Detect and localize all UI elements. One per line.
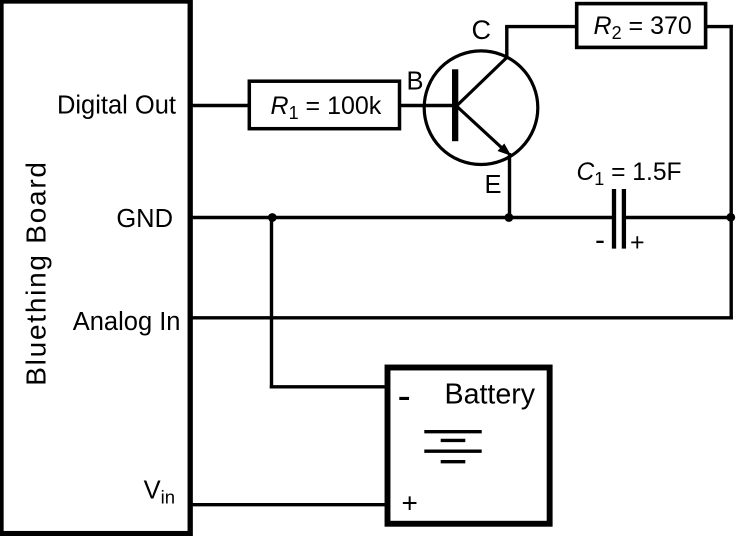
- junction dot GND-battery: [268, 213, 277, 222]
- wire Analog In: [188, 316, 733, 319]
- svg-text:+: +: [402, 488, 418, 519]
- wire battery minus horizontal: [270, 385, 388, 388]
- wire R2 to right rail: [706, 25, 733, 28]
- wire emitter vertical: [508, 153, 511, 218]
- resistor R2: [577, 4, 706, 48]
- svg-text:Battery: Battery: [445, 378, 536, 410]
- svg-text:Digital Out: Digital Out: [57, 92, 176, 120]
- resistor R1: [249, 81, 399, 129]
- svg-text:C: C: [472, 15, 492, 45]
- wire collector to R2: [505, 25, 578, 28]
- svg-text:Analog In: Analog In: [73, 308, 181, 336]
- svg-text:+: +: [630, 229, 645, 257]
- wire Vin to battery plus: [188, 503, 388, 506]
- transistor Q1: [424, 51, 538, 165]
- svg-text:E: E: [485, 171, 502, 199]
- wire GND right segment: [626, 216, 731, 219]
- wire right rail vertical: [730, 25, 733, 320]
- board U1 Bluething Board: [1, 1, 190, 534]
- svg-text:C1 = 1.5F: C1 = 1.5F: [577, 159, 682, 189]
- svg-text:R1 = 100k: R1 = 100k: [271, 92, 382, 123]
- battery BT1: [388, 368, 550, 524]
- svg-text:B: B: [407, 67, 424, 95]
- svg-text:GND: GND: [116, 205, 173, 233]
- wire GND dot down to battery minus: [270, 218, 273, 389]
- svg-text:-: -: [595, 224, 605, 257]
- svg-text:-: -: [398, 374, 411, 418]
- svg-text:Bluething Board: Bluething Board: [21, 160, 52, 386]
- svg-text:R2 = 370: R2 = 370: [594, 12, 692, 43]
- wire collector vertical: [505, 27, 508, 59]
- wire Digital Out to R1: [188, 104, 251, 107]
- capacitor C1: [577, 159, 682, 257]
- wire R1 to base: [400, 104, 454, 107]
- battery symbol plates: [424, 430, 481, 433]
- wire GND left segment: [188, 216, 612, 219]
- junction dot right rail GND: [726, 213, 735, 222]
- junction dot emitter-GND: [505, 213, 514, 222]
